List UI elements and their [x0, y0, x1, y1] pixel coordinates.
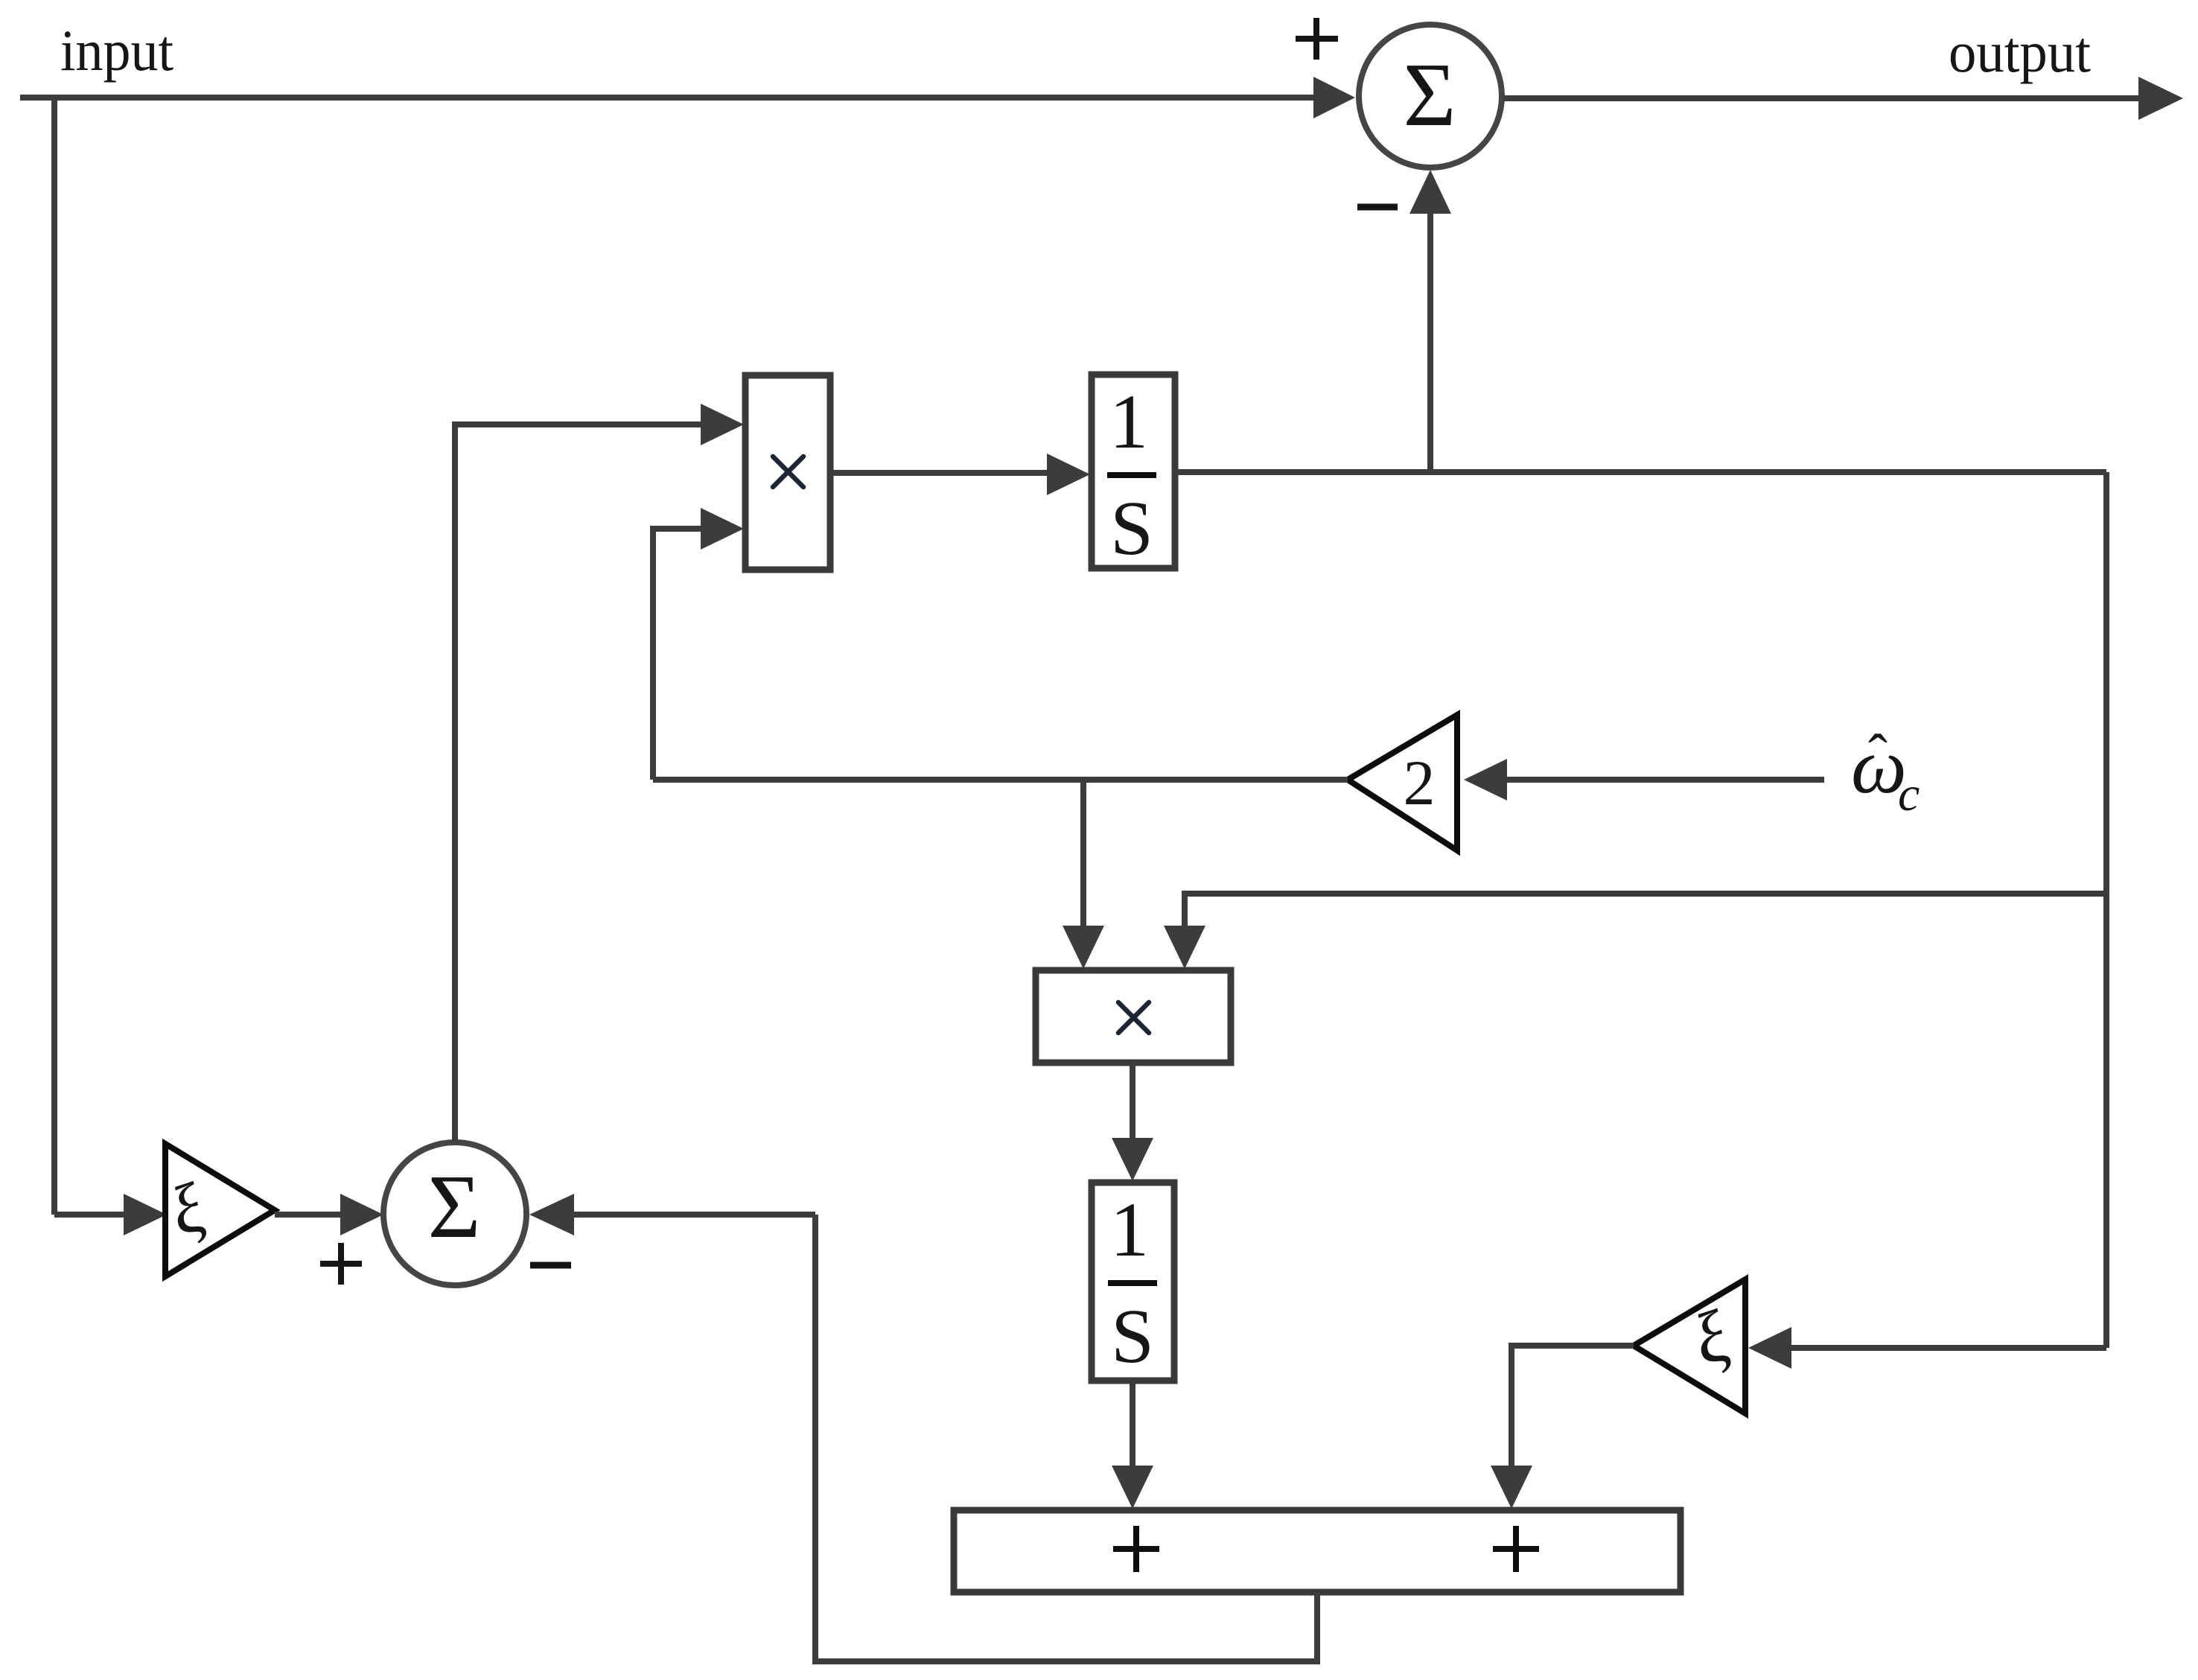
adder A1 (wide plus box): [954, 1510, 1681, 1592]
svg-text:Σ: Σ: [427, 1156, 480, 1257]
wire into multiplier M1 input 1: [452, 404, 744, 445]
plus sign at summer S1 input: [1296, 18, 1338, 60]
wire input left drop: [51, 98, 57, 1215]
summer S1 (top sigma circle): [1359, 25, 1502, 168]
label omega hat c: [1851, 722, 1920, 821]
gain K2 (xi triangle right): [1634, 1279, 1745, 1413]
wire right rail down: [2103, 472, 2109, 1348]
wire summer S2 output up: [452, 424, 458, 1142]
integrator I2 (1/S block bottom): [1092, 1183, 1174, 1381]
wire feedback up into summer S1: [1409, 170, 1451, 472]
wire into multiplier M1 input 2: [653, 508, 744, 780]
plus sign at summer S2: [320, 1243, 362, 1285]
svg-text:c: c: [1898, 767, 1920, 821]
wire feedback into summer S2 right: [529, 1194, 815, 1235]
svg-text:Σ: Σ: [1403, 45, 1456, 145]
wire output from summer S1: [1503, 77, 2183, 120]
svg-text:ˆ: ˆ: [1868, 722, 1888, 787]
svg-text:input: input: [60, 18, 173, 83]
wire integrator I2 to adder A1 left input: [1112, 1381, 1153, 1509]
wire gain K3 output left: [653, 777, 1348, 783]
gain K1 (xi triangle left): [161, 1144, 275, 1276]
wire integrator I1 output to right rail: [1175, 469, 2106, 475]
minus sign at summer S2 right input: [530, 1262, 571, 1269]
wire omega into gain K3: [1464, 759, 1824, 801]
multiplier M2 (horizontal x block): [1036, 970, 1231, 1063]
integrator I1 (1/S block top): [1092, 375, 1175, 571]
wire input top horizontal into summer: [20, 77, 1355, 118]
wire adder A1 output feedback to summer S2: [815, 1215, 1317, 1661]
wire gain K1 to summer S2: [275, 1194, 383, 1235]
wire multiplier M2 to integrator I2: [1112, 1063, 1153, 1181]
wire into gain K1: [54, 1194, 167, 1235]
gain K3 (triangle gain 2): [1348, 715, 1457, 850]
svg-text:2: 2: [1404, 747, 1436, 818]
wire gain K2 output to adder A1 right input: [1491, 1346, 1634, 1509]
svg-text:1: 1: [1110, 1187, 1149, 1273]
wire multiplier M1 to integrator I1: [830, 454, 1090, 495]
summer S2 (bottom sigma circle): [383, 1142, 526, 1285]
minus sign at summer S1 bottom input: [1357, 204, 1398, 211]
wire rail bottom into gain K2: [1748, 1327, 2106, 1369]
multiplier M1 (vertical x block): [745, 375, 830, 570]
wire rail branch to multiplier M2 input 2: [1164, 894, 2106, 969]
svg-text:S: S: [1111, 1294, 1154, 1379]
svg-text:output: output: [1949, 19, 2091, 84]
svg-text:S: S: [1110, 486, 1153, 571]
wire branch down to multiplier M2 input 1: [1063, 780, 1104, 969]
svg-text:1: 1: [1109, 379, 1148, 465]
